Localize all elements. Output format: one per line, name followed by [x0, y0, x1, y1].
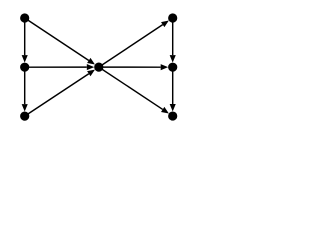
arrowhead C to MR: [161, 64, 168, 70]
wire C to TR: [99, 25, 163, 67]
wire TL to C: [25, 18, 89, 60]
node MR: [168, 63, 177, 72]
arrowhead C to TR: [161, 21, 169, 28]
node C: [94, 63, 103, 72]
node BL: [20, 112, 29, 121]
wire MR to BR: [172, 67, 174, 104]
wire BL to C: [25, 74, 89, 116]
arrowhead ML to C: [87, 64, 94, 70]
node TL: [20, 13, 29, 22]
arrowhead BL to C: [87, 70, 95, 77]
wire TR to MR: [172, 18, 174, 55]
arrowhead TL to ML: [22, 55, 28, 62]
arrowhead C to BR: [161, 107, 169, 114]
wire ML to BL: [24, 67, 26, 104]
wire C to MR: [99, 66, 161, 68]
wire ML to C: [25, 66, 87, 68]
wire C to BR: [99, 67, 163, 109]
arrowhead ML to BL: [22, 104, 28, 111]
node BR: [168, 111, 177, 120]
arrowhead TR to MR: [170, 55, 176, 62]
node TR: [168, 13, 177, 22]
wire TL to ML: [24, 18, 26, 55]
arrowhead TL to C: [87, 58, 95, 65]
arrowhead MR to BR: [170, 104, 176, 111]
node ML: [20, 63, 29, 72]
